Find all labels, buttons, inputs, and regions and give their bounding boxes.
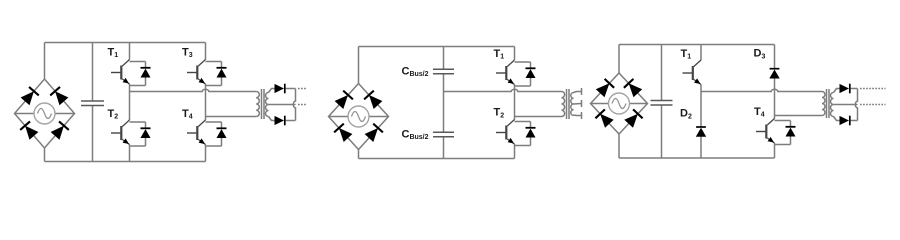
wire (node A to primary top, hop over right leg): [701, 89, 822, 91]
svg-text:T1: T1: [108, 46, 119, 59]
wire (top rail): [619, 44, 775, 46]
wire (capacitor branch): [92, 43, 94, 162]
wire (dashed output +): [860, 88, 886, 90]
wire (top rail): [359, 46, 515, 48]
diode (output rectifier, top): [275, 84, 285, 94]
wire (dashed output return): [298, 104, 307, 106]
bridge diode (AC left to DC+): [21, 87, 39, 105]
wire (right leg): [205, 43, 207, 162]
wire (bottom rail): [359, 158, 515, 160]
capacitor (DC bus): [651, 101, 673, 106]
transformer core: [827, 89, 830, 118]
wire (secondary center tap): [269, 104, 296, 106]
wire (switch midpoint to primary bottom): [515, 116, 562, 118]
transistor T1 (IGBT with antiparallel diode): [108, 46, 151, 85]
diode (output rectifier, top): [840, 84, 850, 94]
capacitor CBus/2 (upper): [402, 65, 455, 78]
wire (bridge diamond edges): [591, 73, 648, 134]
transistor T1 (IGBT with antiparallel diode): [494, 48, 536, 86]
wire (secondary top lead): [834, 89, 840, 93]
transformer core: [262, 89, 265, 119]
wire (left leg): [129, 43, 131, 162]
wire (bottom rail): [619, 157, 775, 159]
wire (secondary center tap, open): [574, 103, 582, 106]
diode (output rectifier, bottom): [275, 116, 285, 126]
svg-text:D2: D2: [680, 108, 692, 121]
svg-text:D3: D3: [754, 48, 766, 61]
wire (secondary bottom lead): [269, 117, 275, 121]
wire (secondary center tap): [834, 104, 858, 106]
wire (capacitor branch): [661, 45, 663, 159]
bridge diode (DC- to AC left): [334, 124, 352, 142]
transistor T2 (IGBT with antiparallel diode): [494, 107, 536, 146]
bridge diode (DC- to AC right): [365, 124, 383, 142]
terminal (secondary center tap): [581, 100, 583, 107]
transistor T4 (IGBT with antiparallel diode): [754, 106, 796, 145]
transistor T3 (IGBT with antiparallel diode): [182, 46, 227, 85]
wire (bridge DC+ to top rail): [618, 45, 620, 74]
wire (bottom diode cathode to output node): [851, 120, 858, 122]
wire (capacitor branch): [443, 47, 445, 159]
diode D2 (freewheeling): [680, 108, 706, 137]
wire (bridge DC- to bottom rail): [618, 134, 620, 158]
svg-text:CBus/2: CBus/2: [402, 65, 429, 78]
wire (secondary top lead): [269, 89, 275, 93]
bridge diode (AC left to DC+): [596, 79, 614, 97]
transistor T2 (IGBT with antiparallel diode): [108, 108, 151, 146]
AC source: [609, 93, 630, 114]
wire (top rail): [45, 42, 206, 44]
wire (switch leg): [514, 47, 516, 159]
wire (right leg): [774, 45, 776, 159]
svg-text:T4: T4: [754, 106, 765, 119]
wire (bridge DC+ to top rail): [44, 43, 46, 80]
bridge diode (DC- to AC right): [51, 121, 69, 139]
capacitor (DC bus): [81, 101, 104, 106]
diode D3 (clamp): [754, 48, 780, 79]
terminal (secondary top): [581, 88, 583, 95]
wire (bottom rail): [45, 161, 206, 163]
wire (top diode cathode to output node): [286, 88, 296, 90]
wire (bridge diamond edges): [329, 84, 389, 150]
transformer secondary winding (center-tapped): [266, 93, 269, 117]
bridge diode (AC right to DC+): [50, 87, 68, 105]
capacitor CBus/2 (lower): [402, 128, 455, 141]
wire (AC source leads): [329, 116, 389, 118]
terminal (secondary bottom): [581, 112, 583, 119]
bridge diode (DC- to AC right): [624, 109, 642, 127]
wire (bridge DC- to bottom rail): [44, 148, 46, 162]
wire (secondary top lead, open): [574, 92, 582, 93]
bridge diode (AC right to DC+): [624, 79, 642, 97]
diode (output rectifier, bottom): [840, 116, 850, 126]
wire (cathode join, hop over center tap): [293, 89, 295, 121]
svg-text:CBus/2: CBus/2: [402, 128, 429, 141]
svg-text:T1: T1: [494, 48, 505, 61]
svg-text:T4: T4: [182, 108, 193, 121]
wire (left leg): [700, 45, 702, 159]
bridge diode (DC- to AC left): [595, 109, 613, 127]
transistor T1 (IGBT): [681, 48, 702, 85]
wire (cathode join, hop over center tap): [855, 89, 857, 121]
bridge diode (AC left to DC+): [335, 91, 353, 109]
wire (bottom diode cathode to output node): [286, 120, 296, 122]
transformer secondary winding (center-tapped): [831, 93, 834, 117]
svg-text:T1: T1: [681, 48, 692, 61]
wire (dashed output return): [860, 104, 886, 106]
wire (capacitor midpoint to primary top, hop over switch leg): [444, 89, 562, 91]
transformer primary winding: [256, 92, 259, 117]
AC source: [34, 103, 55, 124]
wire (bridge DC+ to top rail): [358, 47, 360, 84]
transformer primary winding: [562, 92, 565, 117]
transformer core: [567, 89, 570, 119]
wire (secondary bottom lead, open): [574, 114, 582, 117]
wire (top diode cathode to output node): [851, 88, 858, 90]
svg-text:T2: T2: [108, 108, 119, 121]
wire (AC source leads): [591, 103, 648, 105]
wire (left midpoint to primary top, hop over right leg): [130, 89, 257, 91]
svg-text:T3: T3: [182, 46, 193, 59]
wire (node B to primary bottom): [775, 115, 823, 117]
wire (bridge diamond edges): [15, 79, 75, 148]
transformer primary winding: [822, 92, 825, 116]
bridge diode (AC right to DC+): [364, 91, 382, 109]
wire (right midpoint to primary bottom): [206, 116, 257, 118]
bridge diode (DC- to AC left): [20, 121, 38, 139]
wire (dashed output +): [298, 88, 307, 90]
wire (AC source leads): [15, 113, 75, 115]
wire (secondary bottom lead): [834, 117, 840, 121]
wire (bridge DC- to bottom rail): [358, 150, 360, 159]
svg-text:T2: T2: [494, 107, 505, 120]
AC source: [348, 106, 369, 127]
transformer secondary winding (center-tapped): [571, 93, 574, 116]
transistor T4 (IGBT with antiparallel diode): [182, 108, 227, 146]
